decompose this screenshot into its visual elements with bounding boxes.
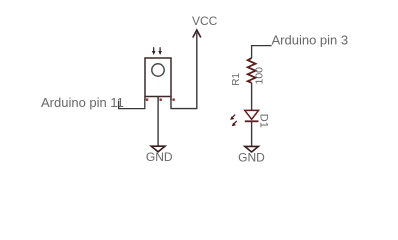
label R1 xyxy=(231,73,242,86)
svg-text:GND: GND xyxy=(146,150,173,164)
LED emission arrow 2 xyxy=(232,121,237,126)
wire resistor to LED xyxy=(251,83,253,111)
svg-text:VCC: VCC xyxy=(192,14,218,28)
wire LED to ground xyxy=(251,121,253,146)
VCC arrow xyxy=(193,30,201,38)
resistor R1 xyxy=(248,58,256,83)
svg-text:100: 100 xyxy=(253,67,265,85)
ground label right xyxy=(238,151,265,165)
wire pin3 to resistor xyxy=(252,46,272,59)
value 100 xyxy=(253,67,265,85)
label D1 xyxy=(258,114,270,128)
incident light arrow 1 xyxy=(152,47,156,55)
incident light arrow 2 xyxy=(158,47,162,55)
svg-text:Arduino pin 11: Arduino pin 11 xyxy=(41,95,124,110)
wire GND center pin down xyxy=(157,100,159,146)
ground symbol left xyxy=(151,146,165,152)
svg-text:D1: D1 xyxy=(258,114,270,128)
IR receiver lens xyxy=(152,64,164,76)
pin GND stub xyxy=(158,97,162,101)
wire pin11 to OUT xyxy=(119,99,145,109)
LED emission arrow 1 xyxy=(230,115,235,120)
svg-text:R1: R1 xyxy=(231,73,242,86)
ground label left xyxy=(146,150,173,164)
svg-text:Arduino pin 3: Arduino pin 3 xyxy=(272,33,349,48)
node Arduino pin 3 xyxy=(272,33,349,48)
node Arduino pin 11 xyxy=(41,95,124,110)
net label VCC xyxy=(192,14,218,28)
svg-text:GND: GND xyxy=(238,151,265,165)
ground symbol right xyxy=(245,146,259,152)
IR receiver detector body xyxy=(145,58,171,97)
LED D1 xyxy=(245,110,259,121)
wire VS pin to VCC xyxy=(171,33,197,109)
pin VS stub xyxy=(171,97,175,101)
pin OUT stub xyxy=(145,97,148,101)
